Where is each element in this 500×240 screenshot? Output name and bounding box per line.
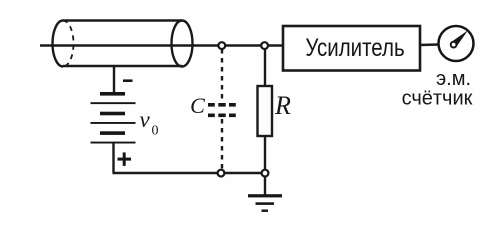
svg-text:0: 0 xyxy=(152,124,159,139)
svg-text:Усилитель: Усилитель xyxy=(305,33,404,61)
svg-text:v: v xyxy=(140,107,151,132)
svg-text:C: C xyxy=(190,93,205,118)
svg-text:счётчик: счётчик xyxy=(402,88,473,110)
svg-text:R: R xyxy=(274,91,291,120)
